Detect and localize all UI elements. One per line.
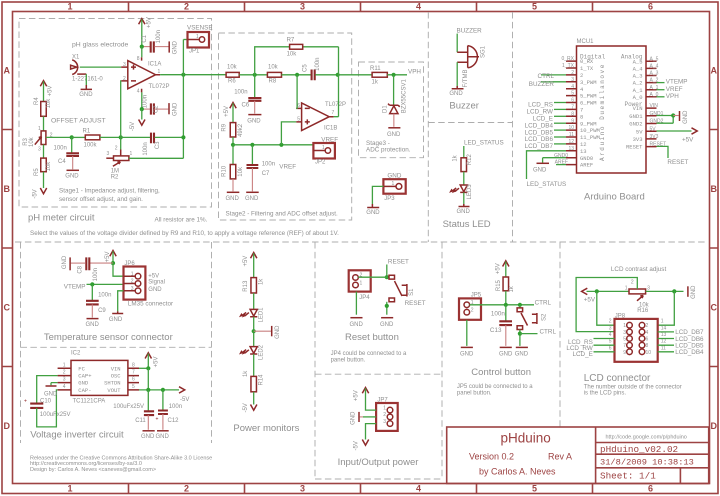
svg-text:BUZZER: BUZZER xyxy=(457,28,483,35)
svg-text:2: 2 xyxy=(471,307,474,313)
svg-text:GND: GND xyxy=(387,132,401,138)
svg-text:sensor offset adjust, and gain: sensor offset adjust, and gain. xyxy=(59,196,143,203)
svg-text:+5V: +5V xyxy=(496,263,502,274)
svg-text:8: 8 xyxy=(646,343,649,349)
svg-text:OFFSET ADJUST: OFFSET ADJUST xyxy=(51,117,106,124)
node junction VIN xyxy=(146,366,150,370)
svg-text:-5V: -5V xyxy=(130,122,136,131)
svg-text:12: 12 xyxy=(661,339,667,345)
svg-text:-5V: -5V xyxy=(32,189,38,198)
JP8 left pads xyxy=(627,322,633,354)
svg-text:+5V: +5V xyxy=(584,297,596,304)
svg-text:B: B xyxy=(711,184,718,194)
wire R16 wiper loop xyxy=(576,278,637,332)
svg-text:LCD_E: LCD_E xyxy=(572,351,592,358)
svg-text:3: 3 xyxy=(300,484,305,494)
svg-text:100n: 100n xyxy=(234,90,247,96)
svg-text:GND: GND xyxy=(350,411,356,425)
svg-text:OSC: OSC xyxy=(111,373,122,380)
ground below X1 xyxy=(79,74,93,98)
svg-text:CTRL: CTRL xyxy=(538,73,555,80)
svg-text:R11: R11 xyxy=(370,66,381,72)
divider temp/power xyxy=(211,242,213,443)
capacitor C10 100uFx25V xyxy=(24,398,71,418)
IC2 TC1121CPA body xyxy=(71,350,128,404)
svg-text:A: A xyxy=(4,66,11,76)
svg-text:JP3: JP3 xyxy=(384,196,395,202)
wire feedback vertical xyxy=(182,40,184,159)
svg-text:C13: C13 xyxy=(490,327,502,334)
svg-text:CTRL: CTRL xyxy=(540,328,557,335)
wire R16 to GND xyxy=(646,290,684,292)
svg-text:10: 10 xyxy=(646,350,652,356)
svg-text:9: 9 xyxy=(571,118,574,124)
divider buzzer left xyxy=(427,12,429,242)
svg-text:LCD_DB7: LCD_DB7 xyxy=(525,143,554,150)
svg-text:A: A xyxy=(711,66,718,76)
svg-text:LED2: LED2 xyxy=(259,344,265,360)
svg-text:R7: R7 xyxy=(287,38,295,44)
svg-text:JP4: JP4 xyxy=(359,295,370,301)
ground at IC2 pin3 xyxy=(44,383,58,398)
svg-text:5: 5 xyxy=(132,384,135,390)
svg-text:6: 6 xyxy=(571,98,574,104)
svg-text:VPH: VPH xyxy=(666,93,679,100)
JP8 outer pin numbers right xyxy=(661,319,667,352)
connector X1 xyxy=(71,55,104,83)
switch S1 xyxy=(389,275,426,307)
MCU1 analog pin names xyxy=(633,58,644,101)
potentiometer R2 1M xyxy=(106,145,132,180)
svg-text:R10: R10 xyxy=(221,165,227,177)
svg-text:C3: C3 xyxy=(155,141,161,149)
capacitor C7 xyxy=(247,145,276,192)
svg-text:1: 1 xyxy=(196,34,199,40)
capacitor C13 100n xyxy=(490,305,512,346)
svg-text:8: 8 xyxy=(137,56,140,62)
svg-text:1: 1 xyxy=(625,285,628,291)
svg-text:JP7: JP7 xyxy=(377,397,388,403)
svg-text:GND: GND xyxy=(366,210,380,216)
IC2 pin stubs xyxy=(58,368,139,390)
svg-text:100n: 100n xyxy=(491,311,506,318)
svg-text:10k: 10k xyxy=(46,161,52,172)
wire GND to JP8 row1 right xyxy=(658,291,675,325)
svg-text:R13: R13 xyxy=(243,280,249,292)
wire S2 bottom node xyxy=(519,330,521,346)
svg-text:R6: R6 xyxy=(228,78,236,84)
divider reset/control xyxy=(441,242,443,479)
supply +5V at R4 xyxy=(40,81,53,102)
svg-text:C11: C11 xyxy=(135,418,146,424)
svg-text:2: 2 xyxy=(383,412,386,418)
svg-text:2: 2 xyxy=(123,76,126,82)
svg-text:Temperature sensor connector: Temperature sensor connector xyxy=(44,332,173,343)
svg-text:14: 14 xyxy=(661,325,667,331)
svg-text:Design by: Carlos A. Neves <c: Design by: Carlos A. Neves <caneves@gmai… xyxy=(30,467,156,473)
wire output to stage3 xyxy=(338,74,372,76)
svg-text:Sheet: 1/1: Sheet: 1/1 xyxy=(600,470,656,481)
svg-text:2: 2 xyxy=(609,319,612,325)
node junction C1/+5V xyxy=(140,45,144,49)
wire feedback to R2 xyxy=(129,157,184,159)
svg-text:GND: GND xyxy=(78,380,89,387)
svg-text:Buzzer: Buzzer xyxy=(449,101,479,112)
svg-text:Version 0.2: Version 0.2 xyxy=(469,452,514,462)
svg-text:GND: GND xyxy=(65,174,79,180)
svg-text:is the LCD pins.: is the LCD pins. xyxy=(584,391,627,397)
svg-text:2: 2 xyxy=(184,2,189,12)
svg-text:LED1: LED1 xyxy=(259,307,265,323)
wire LCD_DB4 to MCU1 xyxy=(554,122,566,124)
supply -5V below R14 xyxy=(243,392,257,413)
wire R8 to C5 xyxy=(282,74,311,76)
node junction R8/C5/pin6 xyxy=(295,73,299,77)
wire CAP+ to C10 xyxy=(37,376,58,404)
svg-text:+5V: +5V xyxy=(48,86,54,97)
wire VREF horizontal xyxy=(233,144,313,146)
svg-text:BUZZER: BUZZER xyxy=(529,81,555,88)
node junction VTEMP/C9 xyxy=(90,282,94,286)
svg-text:TL072P: TL072P xyxy=(149,84,170,90)
wire R4 to R3 xyxy=(43,116,45,131)
svg-text:pH glass electrode: pH glass electrode xyxy=(72,42,129,49)
wire +5V to JP6 pin1 xyxy=(113,263,124,276)
svg-text:1: 1 xyxy=(67,2,72,12)
divider main horizontal xyxy=(15,241,706,243)
svg-text:1k: 1k xyxy=(259,278,265,285)
svg-text:R8: R8 xyxy=(269,78,277,84)
divider control/lcd xyxy=(559,242,561,427)
svg-text:Reset button: Reset button xyxy=(345,332,399,343)
wire +5V to pin8 xyxy=(141,47,143,58)
svg-text:4: 4 xyxy=(63,384,66,390)
svg-text:Select the values of the volta: Select the values of the voltage divider… xyxy=(30,230,339,237)
svg-text:100uFx25V: 100uFx25V xyxy=(40,412,71,418)
svg-text:C: C xyxy=(4,303,11,313)
svg-text:Control button: Control button xyxy=(471,367,531,378)
svg-text:LED_STATUS: LED_STATUS xyxy=(527,181,567,188)
wire AREF stub xyxy=(556,164,566,166)
svg-text:100k: 100k xyxy=(84,143,98,149)
svg-text:GND1: GND1 xyxy=(629,113,643,120)
svg-text:6: 6 xyxy=(648,2,653,12)
svg-text:5: 5 xyxy=(609,339,612,345)
supply -5V below R5 xyxy=(32,172,46,199)
divider buzzer right xyxy=(512,12,514,242)
svg-text:100n: 100n xyxy=(262,162,275,168)
svg-text:A_2: A_2 xyxy=(633,80,643,87)
resistor R14 1k xyxy=(243,370,265,392)
svg-text:JP2: JP2 xyxy=(315,160,326,166)
wire +5V to JP8 row1 left xyxy=(597,291,615,325)
JP8 outer pin numbers left xyxy=(609,319,612,352)
svg-text:6: 6 xyxy=(609,345,612,351)
svg-text:-5V: -5V xyxy=(243,403,249,412)
svg-text:7: 7 xyxy=(332,110,335,116)
wire RESET down xyxy=(386,265,388,278)
svg-text:1: 1 xyxy=(661,319,664,325)
wire pin4 to C2 xyxy=(141,92,143,109)
svg-text:100n: 100n xyxy=(143,142,149,155)
svg-text:11: 11 xyxy=(661,345,666,351)
svg-text:VSENSE: VSENSE xyxy=(187,25,213,32)
svg-text:R4: R4 xyxy=(34,97,40,105)
supply +5V at VIN xyxy=(145,353,160,369)
wire CAP- to C10 bottom xyxy=(37,390,58,427)
svg-text:4: 4 xyxy=(646,330,649,336)
node junction wiper/C4/R1 xyxy=(70,135,74,139)
svg-text:C9: C9 xyxy=(98,308,106,314)
svg-text:All resistor are 1%.: All resistor are 1%. xyxy=(155,216,208,223)
wire R15 to node xyxy=(505,291,507,305)
svg-text:+5V: +5V xyxy=(105,252,111,263)
svg-text:10k: 10k xyxy=(46,98,52,109)
svg-text:5V: 5V xyxy=(636,128,643,135)
svg-text:+5V: +5V xyxy=(154,357,160,368)
svg-text:2: 2 xyxy=(131,279,134,285)
svg-text:A_4: A_4 xyxy=(633,66,644,73)
JP8 inner pin numbers left xyxy=(623,323,626,356)
svg-text:VIN: VIN xyxy=(633,105,643,112)
svg-text:GND: GND xyxy=(457,209,471,215)
svg-text:pH meter circuit: pH meter circuit xyxy=(28,213,95,224)
wire VSENSE xyxy=(183,39,187,41)
svg-text:VTEMP: VTEMP xyxy=(64,284,86,291)
svg-text:10k: 10k xyxy=(29,136,35,147)
svg-text:3: 3 xyxy=(38,147,41,153)
section box pH meter circuit xyxy=(19,19,212,208)
svg-text:Rev A: Rev A xyxy=(548,452,572,462)
svg-text:BZX55CSV1: BZX55CSV1 xyxy=(402,79,408,114)
supply +5V temp xyxy=(105,251,116,264)
wire S1 bottom xyxy=(386,302,388,315)
jumper JP2 VREF xyxy=(313,136,338,165)
resistor R7 10k xyxy=(287,38,303,58)
svg-text:panel button.: panel button. xyxy=(457,390,492,396)
ground below buzzer xyxy=(449,86,463,97)
svg-text:GND: GND xyxy=(148,287,162,293)
wire JP3 to ground xyxy=(372,186,383,204)
svg-text:A_3: A_3 xyxy=(633,73,643,80)
supply +5V at R9 xyxy=(224,103,236,123)
svg-text:AREF: AREF xyxy=(580,162,593,169)
svg-text:1: 1 xyxy=(158,69,161,75)
svg-text:100n: 100n xyxy=(142,95,148,108)
svg-text:D1: D1 xyxy=(382,105,388,113)
svg-text:1: 1 xyxy=(38,126,41,132)
svg-text:JP1: JP1 xyxy=(189,49,200,55)
svg-text:4: 4 xyxy=(416,2,421,12)
potentiometer R16 10k xyxy=(625,279,650,314)
node junction VPH/D1 xyxy=(392,73,396,77)
svg-text:1: 1 xyxy=(63,362,66,368)
svg-text:X1: X1 xyxy=(72,55,80,61)
svg-text:3V3: 3V3 xyxy=(633,136,643,143)
svg-text:3: 3 xyxy=(647,285,650,291)
svg-text:GND: GND xyxy=(515,351,529,357)
svg-text:100n: 100n xyxy=(156,30,162,43)
svg-text:JP8: JP8 xyxy=(615,314,626,320)
svg-text:4: 4 xyxy=(137,88,140,94)
svg-text:http://code.google.com/p/phdui: http://code.google.com/p/phduino xyxy=(606,435,687,441)
svg-text:LCD connector: LCD connector xyxy=(584,373,651,384)
svg-text:ADC protection.: ADC protection. xyxy=(366,147,411,154)
wire VREF to pin5 xyxy=(281,122,296,145)
resistor R9 49k2 xyxy=(221,123,243,137)
ground below S1 xyxy=(380,318,394,328)
svg-text:7: 7 xyxy=(571,105,574,111)
ground below JP4 xyxy=(350,318,364,328)
svg-text:C7: C7 xyxy=(262,171,270,177)
text LCD note xyxy=(584,384,682,396)
LED LED2 xyxy=(241,344,265,360)
svg-text:D: D xyxy=(711,421,718,431)
svg-text:R9: R9 xyxy=(221,123,227,131)
svg-text:10: 10 xyxy=(568,125,574,131)
svg-text:GND: GND xyxy=(460,351,474,357)
svg-text:8: 8 xyxy=(571,111,574,117)
node junction R6/R8/C6/R7 xyxy=(253,73,257,77)
wire to R12 xyxy=(463,146,465,158)
wire LCD_E xyxy=(594,351,615,353)
wire R3 to R5 xyxy=(43,145,45,159)
buzzer SG1 xyxy=(457,45,486,87)
potentiometer R3 10k xyxy=(23,126,53,153)
svg-text:GND: GND xyxy=(245,196,259,202)
svg-text:R2: R2 xyxy=(111,174,119,180)
svg-text:31/8/2009 10:38:13: 31/8/2009 10:38:13 xyxy=(600,458,694,468)
svg-text:Signal: Signal xyxy=(148,280,165,286)
svg-text:GND: GND xyxy=(62,255,68,269)
wire R1 to node xyxy=(100,136,121,138)
svg-text:GND: GND xyxy=(380,322,394,328)
svg-text:Stage2 - Filtering and ADC off: Stage2 - Filtering and ADC offset adjust… xyxy=(226,210,338,217)
wire R6 to R8 xyxy=(239,74,267,76)
wire LCD_DB4 xyxy=(658,351,674,353)
wire node to IC1A pin2 xyxy=(120,81,123,137)
svg-text:A_0: A_0 xyxy=(633,94,643,101)
wire feedback R7 loop xyxy=(255,47,339,75)
wire C6 down xyxy=(254,75,256,98)
svg-text:10k: 10k xyxy=(227,65,238,71)
svg-text:3: 3 xyxy=(131,286,134,292)
ground below D1 xyxy=(387,114,401,138)
svg-text:Arduino Duemilanove: Arduino Duemilanove xyxy=(599,63,606,161)
svg-text:100n: 100n xyxy=(315,58,321,71)
wire LCD_RW xyxy=(594,344,615,346)
wire LCD_DB7 xyxy=(658,331,674,333)
supply +5V power monitor xyxy=(243,253,257,278)
svg-text:GND: GND xyxy=(172,102,178,116)
IC MCU1 Arduino Duemilanove body xyxy=(577,39,647,173)
wire LED3 to gnd xyxy=(463,192,465,204)
wire R12 to LED3 xyxy=(463,172,465,185)
svg-text:Status LED: Status LED xyxy=(443,219,491,230)
wire S2 to CTRL bottom xyxy=(520,333,538,335)
svg-text:100n: 100n xyxy=(169,404,182,410)
svg-text:R16: R16 xyxy=(637,308,649,314)
svg-text:1-227161-0: 1-227161-0 xyxy=(72,77,103,83)
svg-text:1: 1 xyxy=(67,484,72,494)
svg-text:A_3: A_3 xyxy=(650,71,659,77)
svg-text:1: 1 xyxy=(623,323,626,329)
svg-text:C12: C12 xyxy=(168,418,180,424)
svg-text:+: + xyxy=(24,399,27,405)
connector JP7 xyxy=(376,397,398,431)
wire buzzer top xyxy=(456,34,458,53)
node junction C12 xyxy=(161,388,165,392)
svg-text:C6: C6 xyxy=(242,103,250,109)
MCU1 digital pin stubs xyxy=(566,61,577,165)
MCU1 analog pin numbers xyxy=(650,56,659,98)
svg-text:RESET: RESET xyxy=(626,144,643,151)
svg-text:R5: R5 xyxy=(34,168,40,176)
svg-text:RESET: RESET xyxy=(405,300,426,307)
svg-text:VREF: VREF xyxy=(321,136,338,143)
wire LCD_DB5 xyxy=(658,344,674,346)
wire JP4 to S1 xyxy=(358,276,389,278)
svg-text:JP5: JP5 xyxy=(471,293,482,299)
capacitor C9 xyxy=(86,284,111,317)
wire LCD_DB7 to MCU1 xyxy=(554,143,566,145)
node junction R9/R10 xyxy=(231,143,235,147)
supply +5V at JP7 xyxy=(354,388,377,411)
node junction C5/R7/output xyxy=(336,73,340,77)
svg-text:10k: 10k xyxy=(238,166,244,177)
svg-text:10k: 10k xyxy=(287,51,298,57)
supply +5V at C1 xyxy=(139,17,153,46)
svg-text:100n: 100n xyxy=(98,292,111,298)
wire JP5 pin2 to gnd xyxy=(466,320,468,346)
svg-text:A_1: A_1 xyxy=(633,87,644,94)
svg-text:1k: 1k xyxy=(509,285,515,292)
svg-text:GND: GND xyxy=(141,434,155,440)
connector JP4 xyxy=(349,270,371,301)
svg-text:JP6: JP6 xyxy=(124,261,135,267)
JP8 right pads xyxy=(639,322,645,354)
svg-text:LCD_DB4: LCD_DB4 xyxy=(675,349,704,356)
svg-text:GND: GND xyxy=(691,285,697,299)
svg-text:GND: GND xyxy=(226,196,240,202)
ground below JP3 wire xyxy=(366,204,380,216)
svg-text:LM35 connector: LM35 connector xyxy=(128,301,173,308)
node junction GND1 xyxy=(671,113,675,117)
op-amp IC1B xyxy=(296,102,346,131)
capacitor C5 xyxy=(303,58,338,81)
ground left of C8 xyxy=(62,255,70,270)
capacitor C12 100n xyxy=(158,390,182,430)
svg-text:1: 1 xyxy=(392,181,395,187)
supply +5V arrow left xyxy=(582,288,596,304)
svg-text:1: 1 xyxy=(322,145,325,151)
wire BUZZER to pin3 xyxy=(541,81,566,83)
svg-text:CTRL: CTRL xyxy=(535,300,552,307)
MCU1 digital pin numbers xyxy=(554,70,574,166)
svg-text:A_5: A_5 xyxy=(650,56,659,62)
node junction R15 xyxy=(504,303,508,307)
svg-text:6: 6 xyxy=(648,484,653,494)
resistor R6 10k xyxy=(226,65,239,85)
text stage3 note xyxy=(366,140,411,154)
resistor R12 1k xyxy=(453,154,474,172)
svg-text:100n: 100n xyxy=(93,268,99,281)
svg-text:VTEMP: VTEMP xyxy=(666,79,688,86)
svg-text:GND: GND xyxy=(350,322,364,328)
svg-text:+5V: +5V xyxy=(224,106,230,117)
svg-text:3: 3 xyxy=(623,330,626,336)
node junction JP8 pin +5V xyxy=(595,289,599,293)
